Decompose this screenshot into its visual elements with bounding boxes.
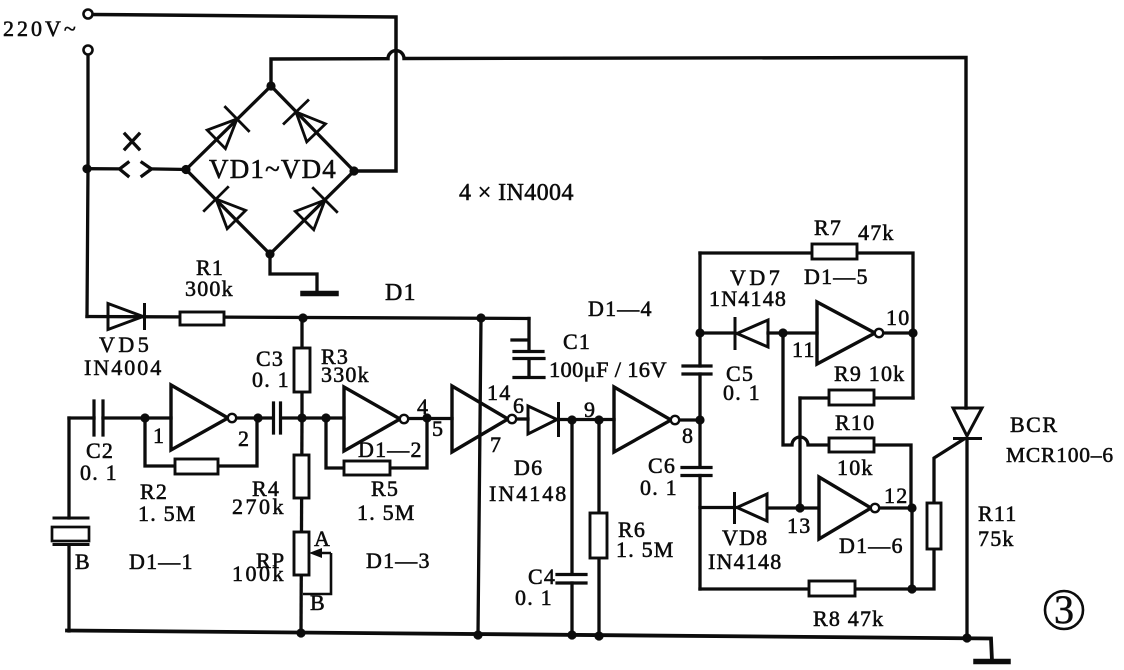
svg-text:11: 11 <box>792 337 816 362</box>
svg-text:R11: R11 <box>978 501 1017 526</box>
svg-text:100μF / 16V: 100μF / 16V <box>549 357 667 382</box>
svg-text:13: 13 <box>787 513 811 538</box>
svg-text:R7: R7 <box>814 215 842 240</box>
svg-text:A: A <box>314 526 331 551</box>
svg-text:330k: 330k <box>321 362 370 387</box>
svg-text:4: 4 <box>417 394 429 419</box>
svg-text:270k: 270k <box>232 494 286 519</box>
svg-text:IN4148: IN4148 <box>489 481 568 506</box>
svg-text:D1—2: D1—2 <box>358 437 423 462</box>
svg-text:1. 5M: 1. 5M <box>616 537 675 562</box>
svg-text:R9 10k: R9 10k <box>834 361 905 386</box>
svg-text:R8 47k: R8 47k <box>813 606 884 631</box>
svg-text:D6: D6 <box>514 455 543 480</box>
svg-text:B: B <box>310 590 326 615</box>
svg-text:47k: 47k <box>858 220 895 245</box>
svg-text:8: 8 <box>682 423 694 448</box>
svg-text:D1—4: D1—4 <box>588 296 653 321</box>
svg-text:R5: R5 <box>371 476 399 501</box>
svg-text:D1—5: D1—5 <box>804 264 869 289</box>
svg-text:0. 1: 0. 1 <box>80 460 118 485</box>
svg-text:VD8: VD8 <box>722 525 768 550</box>
svg-text:220V~: 220V~ <box>3 16 79 41</box>
svg-text:12: 12 <box>884 483 908 508</box>
svg-text:1: 1 <box>153 423 165 448</box>
svg-text:1N4148: 1N4148 <box>709 286 787 311</box>
svg-text:0. 1: 0. 1 <box>640 475 678 500</box>
svg-text:3: 3 <box>1054 587 1074 632</box>
svg-text:D1—1: D1—1 <box>129 549 194 574</box>
svg-text:IN4148: IN4148 <box>708 549 782 574</box>
svg-text:MCR100–6: MCR100–6 <box>1006 443 1114 467</box>
svg-text:D1: D1 <box>385 280 417 306</box>
svg-text:1. 5M: 1. 5M <box>138 501 197 526</box>
svg-text:9: 9 <box>584 397 596 422</box>
svg-text:75k: 75k <box>978 526 1015 551</box>
svg-text:VD1~VD4: VD1~VD4 <box>209 154 337 184</box>
svg-text:100k: 100k <box>232 561 286 586</box>
svg-text:6: 6 <box>513 393 525 418</box>
svg-text:7: 7 <box>490 432 502 457</box>
svg-text:1. 5M: 1. 5M <box>357 500 416 525</box>
svg-text:5: 5 <box>432 416 444 441</box>
svg-text:C1: C1 <box>563 329 591 354</box>
svg-text:2: 2 <box>238 426 250 451</box>
svg-text:0. 1: 0. 1 <box>723 380 761 405</box>
svg-text:BCR: BCR <box>1010 412 1059 437</box>
svg-text:4 × IN4004: 4 × IN4004 <box>459 180 574 206</box>
svg-text:B: B <box>75 549 91 574</box>
svg-text:IN4004: IN4004 <box>84 355 163 380</box>
svg-text:10: 10 <box>886 305 910 330</box>
svg-text:D1—6: D1—6 <box>839 533 904 558</box>
svg-text:R10: R10 <box>835 410 875 435</box>
svg-text:0. 1: 0. 1 <box>252 367 290 392</box>
svg-text:VD5: VD5 <box>99 332 152 357</box>
svg-text:0. 1: 0. 1 <box>515 585 553 610</box>
svg-text:10k: 10k <box>837 455 874 480</box>
svg-text:14: 14 <box>487 380 511 405</box>
svg-text:300k: 300k <box>185 276 234 301</box>
svg-text:D1—3: D1—3 <box>366 548 431 573</box>
